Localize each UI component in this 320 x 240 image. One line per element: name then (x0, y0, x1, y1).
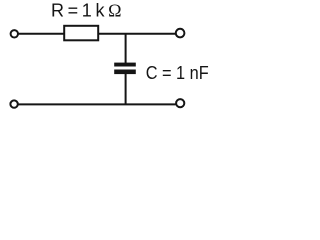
svg-text:R = 1 k Ω: R = 1 k Ω (51, 0, 122, 20)
svg-text:C = 1 nF: C = 1 nF (146, 63, 209, 83)
